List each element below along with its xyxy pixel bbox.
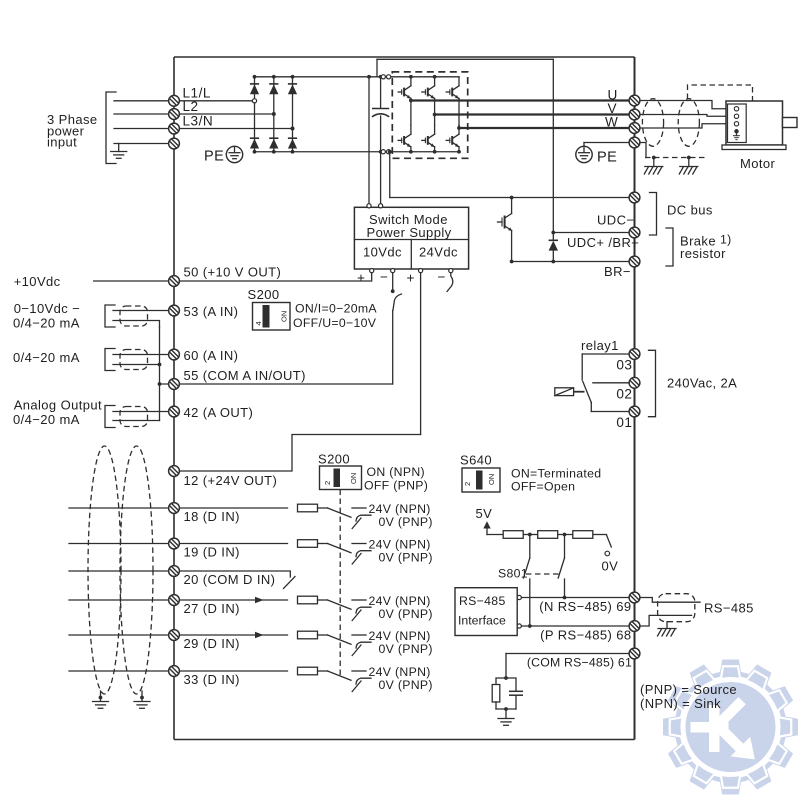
terminal BR-	[629, 256, 640, 267]
wire relay 01	[591, 403, 628, 412]
diode D6	[288, 138, 297, 148]
svg-text:Analog Output: Analog Output	[14, 398, 102, 413]
motor terminal box	[728, 104, 747, 143]
label 24V/0V row33	[369, 665, 433, 692]
svg-text:0V (PNP): 0V (PNP)	[379, 515, 433, 529]
S640 DIP box	[462, 468, 500, 492]
resistor R1	[503, 531, 523, 539]
DC link capacitor C1	[372, 77, 389, 152]
motor base	[722, 145, 786, 150]
motor terminal pins	[734, 107, 738, 134]
junction dots bottom rail	[253, 150, 383, 154]
diode D3	[288, 84, 297, 94]
cable ground 1	[93, 691, 109, 708]
svg-text:UDC+ /BR+: UDC+ /BR+	[567, 235, 639, 250]
wire PE input	[114, 143, 169, 145]
terminal U	[629, 95, 640, 106]
svg-text:5V: 5V	[476, 506, 493, 521]
svg-text:OFF/U=0−10V: OFF/U=0−10V	[293, 316, 377, 330]
IGBT Q2 top V	[422, 75, 437, 115]
svg-text:RS−485: RS−485	[704, 601, 754, 616]
rectifier column 2	[273, 77, 275, 152]
svg-text:50 (+10 V OUT): 50 (+10 V OUT)	[184, 265, 282, 280]
bracket 53	[105, 305, 115, 327]
IGBT Q6 bottom W	[446, 125, 461, 153]
svg-text:UDC−: UDC−	[597, 213, 634, 228]
label Brake resistor	[680, 233, 732, 262]
SMPS feed riser from bottom rail	[380, 152, 382, 204]
svg-text:Motor: Motor	[740, 156, 776, 171]
RS-485 external wires	[641, 598, 701, 627]
terminal PE input	[169, 138, 180, 149]
interface pins	[517, 595, 521, 628]
wires 53 pair	[113, 311, 169, 328]
svg-text:OFF (PNP): OFF (PNP)	[364, 479, 428, 493]
0V disconnect	[602, 535, 619, 574]
terminal L3/N	[169, 123, 180, 134]
svg-text:input: input	[47, 135, 77, 150]
svg-text:(N RS−485) 69: (N RS−485) 69	[539, 599, 631, 614]
terminal motor PE	[629, 137, 640, 148]
wire L2 to rectifier	[180, 113, 272, 115]
svg-text:+10Vdc: +10Vdc	[14, 274, 61, 289]
SMPS output circles	[370, 269, 453, 273]
svg-text:19 (D IN): 19 (D IN)	[184, 545, 240, 560]
svg-text:60 (A IN): 60 (A IN)	[184, 348, 239, 363]
wires 60 pair	[113, 355, 169, 365]
SMPS divider horizontal	[354, 239, 468, 241]
24V minus open switch	[447, 273, 453, 292]
svg-text:S640: S640	[460, 453, 492, 468]
cable ground 2	[134, 691, 150, 708]
S200 analog DIP box	[253, 303, 291, 331]
svg-text:20 (COM D IN): 20 (COM D IN)	[184, 572, 276, 587]
svg-text:ON=Terminated: ON=Terminated	[511, 467, 601, 481]
shield dashed bond line	[645, 157, 705, 159]
bracket 42	[105, 406, 115, 428]
svg-text:33 (D IN): 33 (D IN)	[184, 672, 240, 687]
svg-text:0V (PNP): 0V (PNP)	[379, 642, 433, 656]
10V minus drop with switch	[391, 273, 402, 384]
motor cable shield ellipse 1	[642, 99, 663, 147]
diode D5	[269, 138, 278, 148]
terminal 68	[629, 621, 640, 632]
wire L2	[114, 113, 169, 115]
wire L1 to rectifier	[180, 100, 253, 102]
PE symbol input	[204, 146, 243, 164]
RS-485 cable shield	[658, 594, 695, 622]
wires 42 pair	[113, 412, 169, 421]
terminal 50	[169, 276, 180, 287]
drive enclosure box	[174, 57, 635, 740]
SMPS polarity labels	[357, 270, 446, 286]
BR- wire	[512, 261, 629, 263]
shield drain wire	[641, 143, 647, 158]
svg-text:Power Supply: Power Supply	[367, 225, 452, 240]
wire +10Vdc external	[94, 280, 169, 282]
terminal 69	[629, 592, 640, 603]
svg-text:55 (COM A IN/OUT): 55 (COM A IN/OUT)	[184, 368, 306, 383]
RS-485 interface box	[455, 588, 517, 636]
negative DC rail to UDC-	[388, 150, 629, 198]
digital cable ellipse 1	[88, 446, 121, 694]
wire relay 02	[593, 382, 629, 384]
svg-text:24V (NPN): 24V (NPN)	[369, 594, 431, 608]
diode D4	[250, 138, 259, 148]
pull-up rail	[487, 533, 607, 537]
shield ground dots	[652, 156, 691, 160]
terminal UDC-	[629, 192, 640, 203]
module entry circles top	[381, 75, 391, 79]
svg-text:0V: 0V	[602, 559, 619, 574]
UDC+ /BR+ wire	[553, 232, 628, 234]
wire W to motor	[641, 124, 732, 128]
brake chopper IGBT Q7	[498, 196, 514, 264]
svg-text:0V (PNP): 0V (PNP)	[379, 550, 433, 564]
S801 switch right	[558, 536, 566, 599]
svg-text:ON: ON	[349, 473, 358, 484]
row 27	[69, 596, 371, 620]
relay bracket	[649, 350, 656, 416]
svg-text:S200: S200	[318, 452, 350, 467]
module entry circles bottom	[381, 150, 391, 154]
rectifier column 3	[292, 77, 294, 152]
svg-text:10Vdc: 10Vdc	[363, 245, 402, 260]
resistor R3	[573, 531, 593, 539]
wire V to motor	[641, 115, 732, 117]
svg-text:(PNP) = Source: (PNP) = Source	[640, 682, 737, 697]
terminal 60	[169, 349, 180, 360]
wire COM 61	[504, 654, 628, 680]
row 33	[69, 667, 371, 691]
wire U to motor	[641, 101, 732, 109]
relay contact arm	[583, 382, 592, 403]
terminal 01	[629, 406, 640, 417]
IGBT Q1 top U	[398, 75, 413, 101]
digital cable ellipse 2	[120, 446, 153, 694]
svg-text:relay1: relay1	[581, 338, 619, 353]
row 19	[69, 540, 371, 564]
wire phase W	[459, 127, 629, 129]
terminal 53	[169, 305, 180, 316]
terminal 18	[169, 503, 180, 514]
svg-text:0V (PNP): 0V (PNP)	[379, 678, 433, 692]
shield 53	[120, 306, 148, 326]
svg-text:24V (NPN): 24V (NPN)	[369, 537, 431, 551]
terminal 27	[169, 595, 180, 606]
svg-text:0/4−20 mA: 0/4−20 mA	[13, 412, 80, 427]
svg-text:12 (+24V OUT): 12 (+24V OUT)	[184, 473, 278, 488]
terminal 03	[629, 349, 640, 360]
svg-text:S200: S200	[248, 287, 280, 302]
wire phase V	[435, 113, 629, 115]
svg-text:PE: PE	[204, 149, 224, 165]
IGBT Q3 top W	[446, 77, 459, 128]
svg-text:Interface: Interface	[458, 614, 506, 628]
terminal 02	[629, 377, 640, 388]
label 24V/0V row27	[369, 594, 433, 621]
diode D1	[250, 84, 259, 94]
svg-text:(NPN) = Sink: (NPN) = Sink	[640, 696, 721, 711]
SMPS top circles	[367, 204, 383, 208]
svg-text:ON: ON	[280, 311, 289, 322]
svg-text:W: W	[605, 115, 618, 130]
wire L3	[114, 128, 169, 130]
terminal 20	[169, 566, 180, 577]
shield 60	[120, 350, 148, 370]
PE output symbol	[576, 143, 618, 166]
module top rail	[392, 76, 459, 78]
svg-text:24V (NPN): 24V (NPN)	[369, 665, 431, 679]
svg-text:resistor: resistor	[680, 246, 726, 261]
node L2-rectifier	[272, 112, 276, 116]
svg-text:−: −	[438, 270, 446, 285]
svg-text:42 (A OUT): 42 (A OUT)	[184, 405, 254, 420]
svg-text:27 (D IN): 27 (D IN)	[184, 601, 240, 616]
svg-text:−: −	[380, 270, 388, 285]
S801 switch left	[524, 536, 532, 627]
svg-text:1): 1)	[720, 233, 732, 247]
wire P RS-485 68	[521, 625, 628, 627]
node L3-rectifier	[291, 127, 295, 131]
IGBT module dashed box	[392, 72, 467, 158]
RS-485 shield ground	[658, 622, 677, 636]
terminal L1/L	[169, 95, 180, 106]
svg-text:24V (NPN): 24V (NPN)	[369, 502, 431, 516]
shield 42	[120, 407, 148, 427]
svg-text:ON: ON	[487, 474, 496, 485]
svg-text:BR−: BR−	[604, 264, 631, 279]
watermark gear logo	[663, 660, 798, 795]
svg-text:18 (D IN): 18 (D IN)	[184, 509, 240, 524]
wire +10V to terminal 50	[174, 273, 372, 281]
label 24V/0V row18	[369, 502, 433, 529]
motor shaft	[783, 118, 798, 128]
svg-text:0/4−20 mA: 0/4−20 mA	[13, 316, 80, 331]
rectifier bottom rail	[255, 151, 393, 153]
label Switch Mode Power Supply	[367, 212, 452, 240]
terminal 33	[169, 666, 180, 677]
terminal 12	[169, 466, 180, 477]
svg-text:4: 4	[254, 321, 263, 325]
S801 gang dashed link	[526, 573, 560, 575]
svg-text:PE: PE	[597, 150, 617, 166]
wire relay 03	[582, 354, 628, 380]
svg-text:24Vdc: 24Vdc	[419, 245, 458, 260]
wire L1	[114, 100, 169, 102]
svg-text:2: 2	[463, 482, 472, 486]
svg-text:L3/N: L3/N	[183, 114, 214, 129]
3 phase input bracket	[106, 92, 116, 164]
IGBT Q5 bottom V	[422, 113, 437, 154]
freewheel diode D7	[549, 231, 558, 264]
svg-text:+: +	[407, 271, 415, 286]
label 24V/0V row29	[369, 629, 433, 656]
svg-text:(COM RS−485) 61: (COM RS−485) 61	[527, 656, 632, 670]
svg-text:24V (NPN): 24V (NPN)	[369, 629, 431, 643]
shield dashed loop to motor	[688, 85, 753, 101]
row 18	[69, 504, 371, 528]
terminal W	[629, 123, 640, 134]
shield ground 1	[644, 158, 663, 175]
svg-text:29 (D IN): 29 (D IN)	[184, 636, 240, 651]
SMPS feed riser from top rail	[368, 77, 370, 204]
terminal UDC+/BR+	[629, 227, 640, 238]
svg-text:01: 01	[616, 415, 632, 430]
node L1-rectifier	[252, 99, 256, 103]
terminal L2	[169, 109, 180, 120]
svg-text:03: 03	[616, 358, 632, 373]
DC bus bracket	[650, 193, 657, 236]
svg-text:0/4−20 mA: 0/4−20 mA	[13, 350, 80, 365]
analog common vertical	[158, 327, 162, 421]
label 24V/0V row19	[369, 537, 433, 564]
wire 55 common	[160, 383, 393, 385]
svg-text:240Vac, 2A: 240Vac, 2A	[667, 376, 737, 391]
SMPS divider vertical	[410, 240, 412, 270]
module bottom rail	[392, 151, 459, 153]
terminal V	[629, 109, 640, 120]
wire L3 to rectifier	[180, 128, 291, 130]
5V pull-up arrow	[476, 506, 493, 535]
terminal 19	[169, 538, 180, 549]
24V plus riser	[420, 273, 422, 435]
svg-text:(P RS−485) 68: (P RS−485) 68	[540, 628, 631, 643]
RC network to ground	[492, 678, 523, 725]
brake resistor bracket	[666, 228, 673, 266]
wire motor PE terminal	[584, 142, 629, 144]
svg-text:ON (NPN): ON (NPN)	[367, 465, 425, 479]
junction dots top rail	[253, 75, 383, 79]
svg-text:DC bus: DC bus	[667, 203, 713, 218]
terminal 29	[169, 630, 180, 641]
svg-text:02: 02	[616, 386, 632, 401]
svg-text:OFF=Open: OFF=Open	[511, 480, 575, 494]
positive DC rail to UDC+	[377, 59, 553, 232]
label: 3 Phase power input	[47, 112, 98, 150]
relay coil	[555, 388, 585, 396]
row 29	[69, 631, 371, 655]
SMPS box	[354, 207, 468, 269]
wire terminal 12 to 24V supply	[174, 435, 421, 472]
motor earth mark	[733, 134, 740, 140]
terminal 42	[169, 406, 180, 417]
rectifier top rail	[255, 76, 393, 78]
svg-text:2: 2	[323, 481, 332, 485]
IGBT Q4 bottom U	[398, 99, 413, 154]
motor cable shield ellipse 2	[678, 99, 699, 147]
bracket 60	[105, 349, 115, 371]
svg-text:+: +	[357, 271, 365, 286]
terminal 61	[629, 648, 640, 659]
svg-text:0V (PNP): 0V (PNP)	[379, 607, 433, 621]
motor body	[726, 101, 783, 145]
svg-text:0−10Vdc −: 0−10Vdc −	[14, 301, 81, 316]
svg-text:53 (A IN): 53 (A IN)	[184, 304, 239, 319]
shield ground 2	[679, 158, 698, 175]
terminal 55	[169, 379, 180, 390]
resistor R2	[538, 531, 558, 539]
S200 digital DIP box	[320, 466, 362, 490]
relay1 group	[555, 338, 737, 430]
row 20 common	[69, 571, 295, 589]
diode D2	[269, 84, 278, 94]
svg-text:ON/I=0−20mA: ON/I=0−20mA	[295, 302, 377, 316]
NPN/PNP select dashed bus	[339, 490, 341, 679]
wire N RS-485 69	[521, 597, 628, 599]
wire phase U	[411, 99, 629, 101]
ground input	[111, 144, 127, 159]
svg-text:RS−485: RS−485	[459, 594, 506, 608]
rectifier column 1	[254, 77, 256, 152]
